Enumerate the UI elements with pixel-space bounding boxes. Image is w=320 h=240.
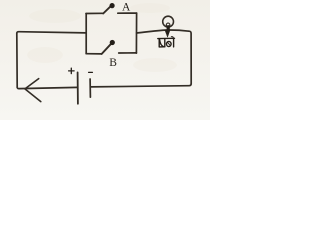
lamp L1: socket wedge below wire (pointer to label) <box>165 30 170 37</box>
wire: switch box top edge, right segment <box>118 12 137 14</box>
wire: left vertical side of loop <box>16 33 18 87</box>
switch B blade (open) <box>102 44 111 54</box>
current direction arrowhead on bottom-left wire <box>25 79 41 102</box>
wire: right vertical side of loop <box>189 31 191 83</box>
battery BT1: negative plate (short) <box>89 79 91 97</box>
wire: bottom-left horizontal (battery positive plate to corner) <box>17 87 77 88</box>
battery BT1: plus polarity label <box>69 68 75 74</box>
switch box left edge <box>85 14 87 54</box>
switch B contact dot <box>110 40 115 45</box>
lamp L1: stem / base blob joining top wire <box>167 27 170 31</box>
svg-text:B: B <box>109 57 117 69</box>
lamp L1: filament loop <box>166 23 170 27</box>
wire: switch box top edge, left segment <box>86 12 103 14</box>
switch A contact dot <box>110 3 115 8</box>
battery BT1: minus polarity label <box>89 71 93 73</box>
svg-text:A: A <box>122 2 131 14</box>
wire: switch box bottom edge, left segment <box>86 53 102 55</box>
switch A blade (open) <box>103 6 110 13</box>
wire: bottom-right horizontal (corner to battery negative plate) <box>90 84 191 87</box>
wire: switch box bottom edge, right segment <box>119 52 137 54</box>
value label: Bengali word "বাতি" (lamp), hand-drawn vector glyphs <box>158 37 175 47</box>
wire: top-left horizontal (loop corner to switch box) <box>17 32 86 34</box>
lamp L1: bulb envelope circle <box>163 16 174 27</box>
wire: top-right horizontal (switch box to lamp to corner) <box>137 30 189 33</box>
switch box right edge <box>135 13 137 53</box>
battery BT1: positive plate (long) <box>77 72 79 103</box>
